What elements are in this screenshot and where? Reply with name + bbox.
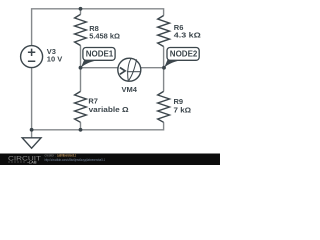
junction dot NODE1: [79, 66, 83, 70]
svg-text:4.3 kΩ: 4.3 kΩ: [174, 30, 201, 39]
junction dot top: [79, 7, 83, 11]
label R7 value: [88, 96, 128, 114]
junction dot R7 bottom: [79, 128, 83, 132]
junction dot bottom left: [30, 128, 34, 132]
resistor R6: [158, 16, 170, 47]
svg-text:10 V: 10 V: [47, 55, 62, 64]
wire: left bottom from source: [31, 68, 33, 130]
svg-text:variable Ω: variable Ω: [89, 105, 129, 114]
CircuitLab footer bar: [0, 154, 220, 166]
wire: voltmeter to NODE2: [141, 67, 164, 69]
svg-text:▪LAB: ▪LAB: [28, 161, 37, 165]
wire: NODE2 to R9: [163, 68, 165, 92]
voltmeter VM4: [118, 58, 141, 81]
label R8 value: [89, 24, 120, 41]
junction dot NODE2: [162, 66, 166, 70]
label V3 value: [47, 47, 62, 64]
wire: R6 bottom lead to NODE2: [163, 47, 165, 68]
label R6 value: [174, 23, 201, 40]
ground: [22, 138, 41, 148]
label R9 value: [174, 97, 192, 114]
svg-text:NODE2: NODE2: [170, 50, 198, 59]
wire: bottom rail: [32, 122, 164, 130]
wire: ground stub: [31, 130, 33, 138]
svg-text:http://circuitlab.com/c/8bz6jm: http://circuitlab.com/c/8bz6jmw6zuyq/lab…: [45, 158, 106, 162]
wire: outer left/top loop: [32, 9, 164, 46]
wire: R8 top lead: [80, 9, 82, 15]
wire: R8 bottom lead to NODE1: [80, 46, 82, 68]
node NODE1 flag: [81, 48, 115, 68]
svg-text:7 kΩ: 7 kΩ: [174, 105, 192, 114]
svg-text:R7: R7: [88, 96, 98, 105]
wire: NODE1 to voltmeter: [81, 67, 119, 69]
wire: NODE1 to R7: [80, 68, 82, 92]
svg-text:NODE1: NODE1: [86, 50, 114, 59]
svg-text:VM4: VM4: [121, 85, 137, 94]
resistor R7: [75, 91, 87, 122]
node NODE2 flag: [164, 48, 199, 68]
voltage source V3: [21, 46, 43, 68]
wire: R7 bottom lead: [80, 122, 82, 130]
resistor R9: [158, 91, 170, 122]
svg-text:5.458 kΩ: 5.458 kΩ: [89, 31, 120, 40]
resistor R8: [75, 14, 87, 45]
